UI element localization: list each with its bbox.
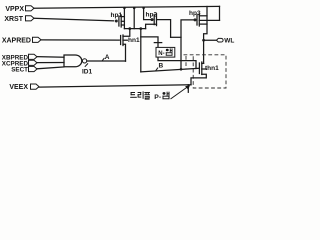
wire node line hp1/hn1/hp2 drains (124, 28, 145, 30)
nand gate ID1 (64, 55, 93, 76)
wire rail right corner down to hp3 bulk (219, 6, 221, 20)
transistor hp3 (189, 6, 220, 63)
wire VEEX (39, 85, 191, 87)
wire XCPRED (37, 62, 64, 64)
wire hp2 drain to node B riser (171, 36, 181, 38)
label triple P-well (130, 85, 190, 101)
port WL (217, 38, 224, 42)
port XCPRED (29, 60, 38, 65)
wire SECT (37, 67, 64, 69)
svg-text:A: A (105, 54, 110, 61)
glyph 트 (130, 92, 137, 98)
port SECT (29, 66, 38, 71)
N-well box (156, 47, 175, 57)
port XRST (26, 16, 35, 21)
wire WL output (202, 39, 205, 42)
wire node A from nand output (87, 60, 126, 62)
svg-text:N-: N- (158, 51, 164, 57)
arrow to P-well box (171, 87, 188, 99)
svg-text:VPPX: VPPX (5, 6, 24, 13)
svg-text:P-: P- (154, 94, 161, 101)
wire N-well box tie to node B (158, 57, 196, 68)
wire N-well feed (141, 37, 158, 48)
wire rail tap to node line (133, 8, 135, 29)
wire node B horizontal to thn1 gate (141, 68, 199, 72)
wire XRST to hp1 gate (34, 18, 114, 21)
port XAPRED (33, 37, 42, 42)
svg-text:B: B (159, 63, 164, 70)
wire node B riser up to hp3 gate (181, 20, 193, 69)
transistor hp2 (144, 7, 171, 37)
svg-text:hn1: hn1 (128, 37, 140, 44)
svg-text:VEEX: VEEX (9, 84, 28, 91)
port VPPX (26, 6, 35, 11)
node A tick (102, 58, 105, 61)
wire VPPX rail (34, 6, 220, 8)
glyph 리 (138, 91, 144, 98)
transistor hn1 (121, 27, 140, 61)
port VEEX (31, 84, 40, 89)
transistor hp1 (111, 8, 125, 29)
wire XBPRED (37, 56, 64, 59)
wire node B trunk down from node line (140, 29, 142, 72)
glyph 웰 (small) (163, 92, 170, 100)
dashed box triple P-well region (184, 55, 227, 88)
transistor thn1 (191, 62, 219, 85)
node B tick (155, 68, 158, 72)
glyph 웰 (166, 48, 173, 55)
dashed fragment N-well region right edge (185, 56, 187, 69)
svg-text:ID1: ID1 (82, 69, 93, 76)
svg-text:XRST: XRST (4, 16, 23, 23)
svg-text:hp2: hp2 (146, 11, 158, 18)
glyph 플 (144, 92, 150, 100)
svg-text:thn1: thn1 (205, 65, 219, 72)
svg-text:SECT: SECT (11, 67, 28, 74)
svg-text:XAPRED: XAPRED (2, 38, 31, 45)
port XBPRED (29, 54, 38, 59)
wire XAPRED to hn1 gate (41, 39, 119, 41)
wire VEEX well tie stub (187, 85, 189, 93)
N-well contact bar (154, 42, 161, 44)
svg-text:WL: WL (224, 38, 234, 45)
